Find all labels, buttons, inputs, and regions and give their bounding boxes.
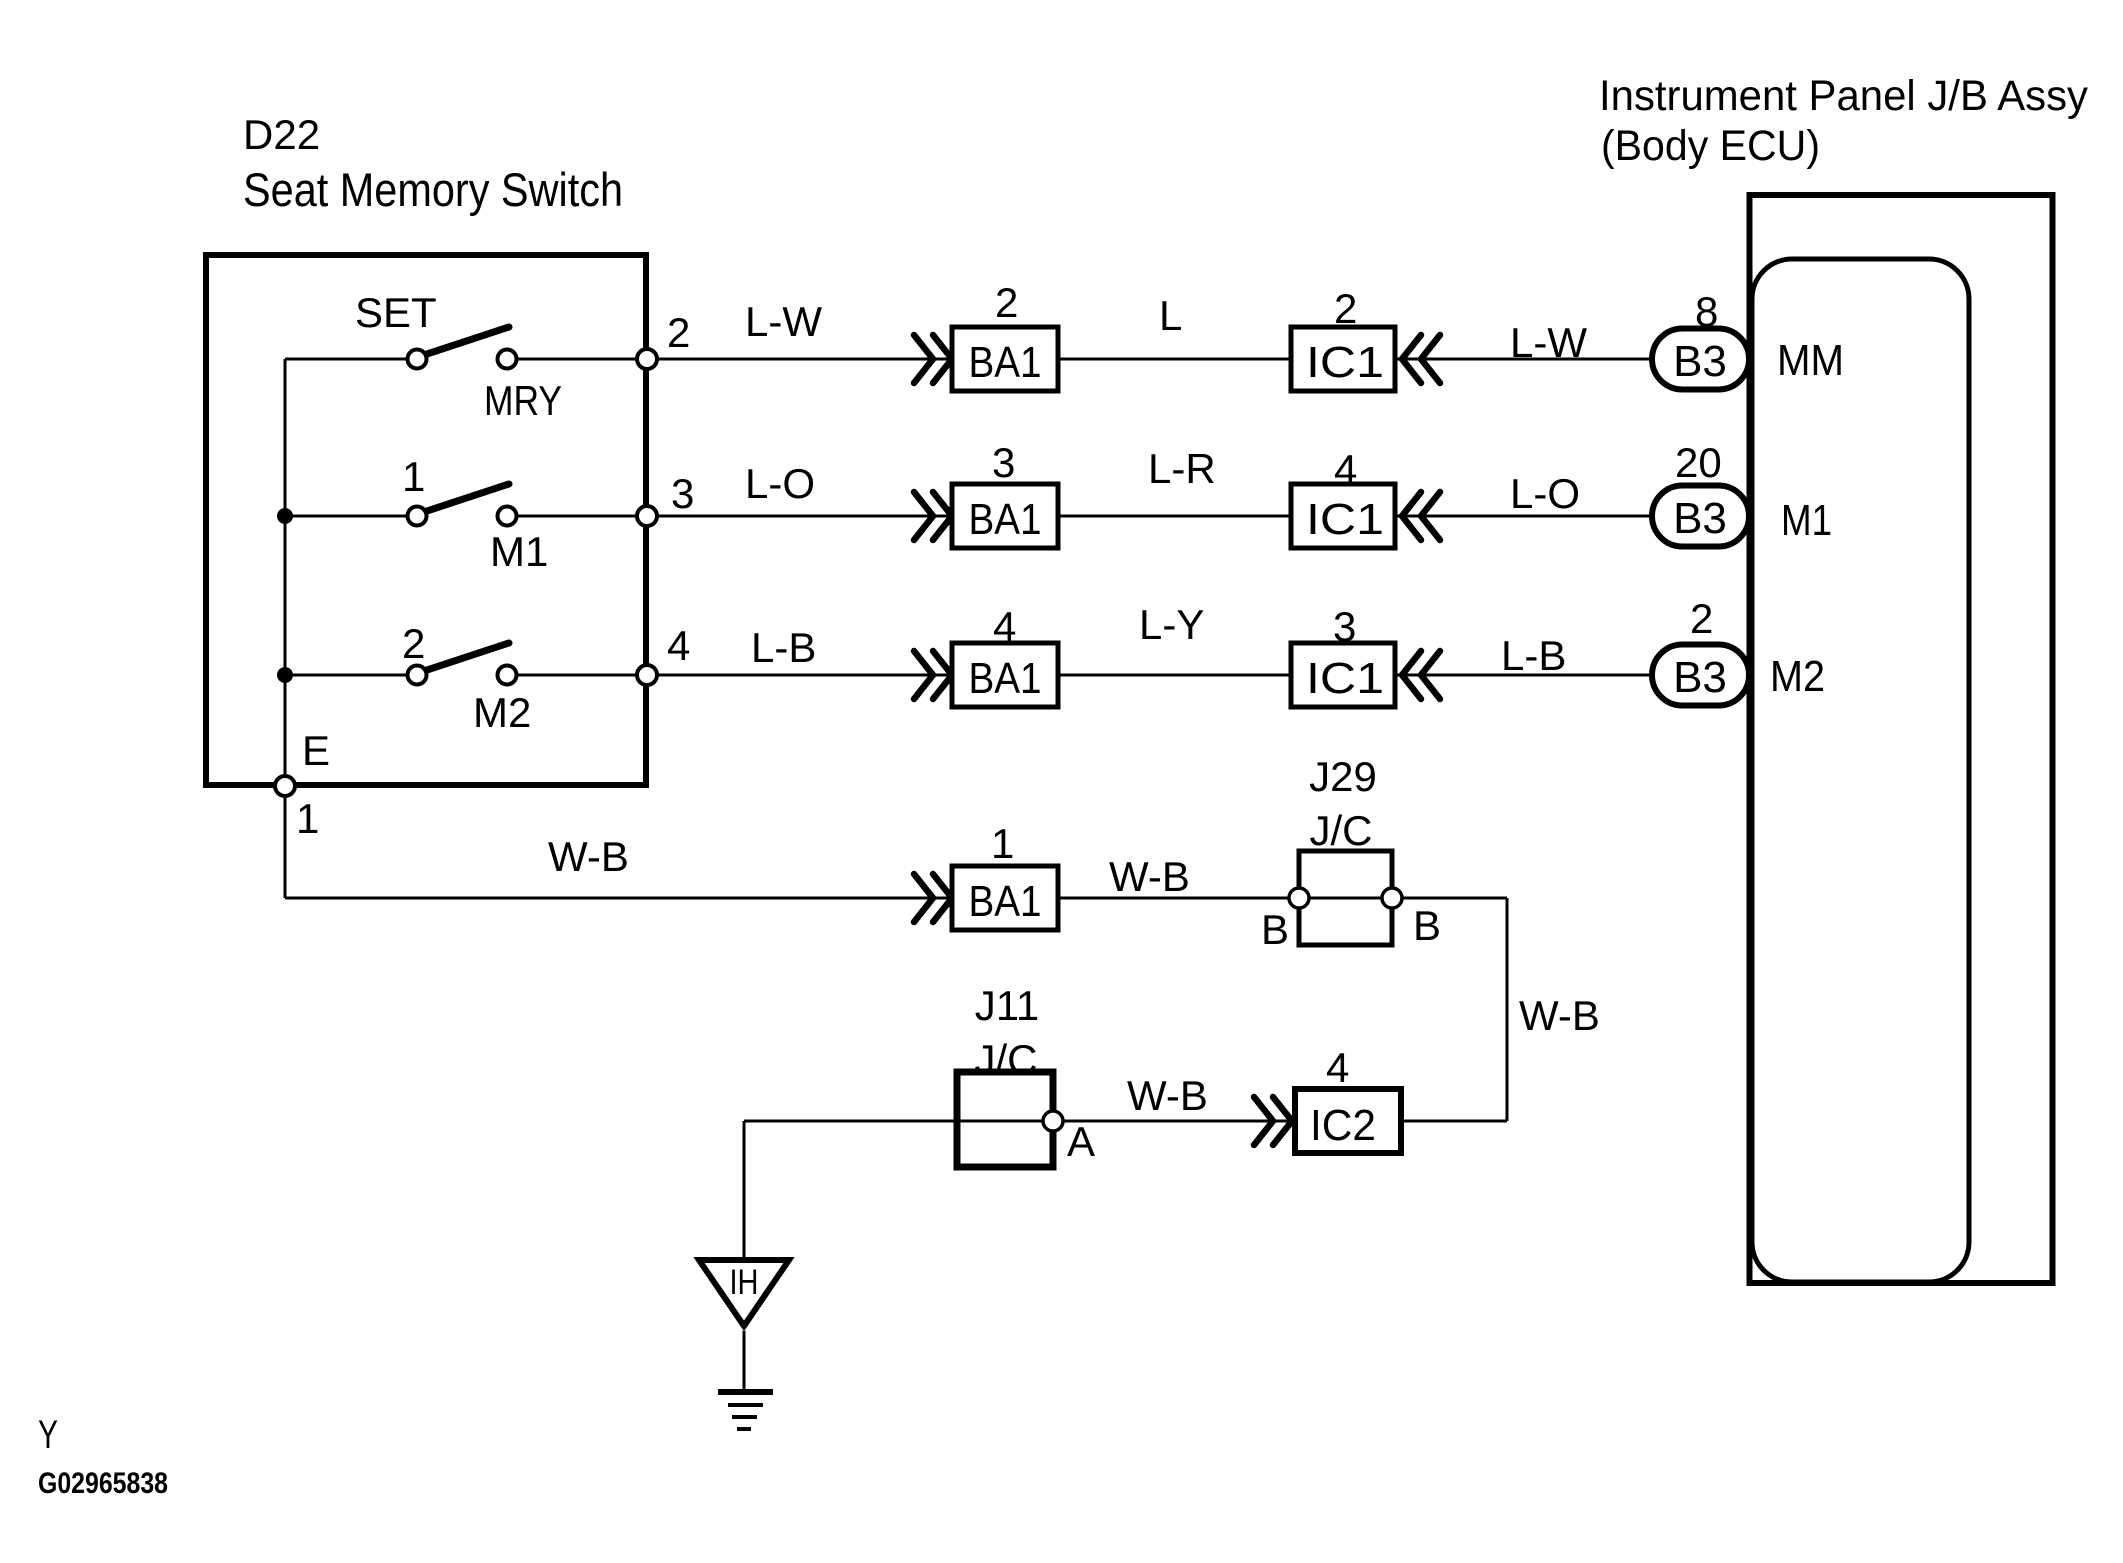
svg-text:M2: M2 <box>1770 652 1825 701</box>
svg-text:1: 1 <box>991 820 1014 867</box>
svg-text:4: 4 <box>1326 1044 1349 1091</box>
svg-text:L-Y: L-Y <box>1139 601 1204 648</box>
svg-text:IC1: IC1 <box>1306 495 1384 544</box>
svg-text:MM: MM <box>1777 336 1844 385</box>
svg-text:4: 4 <box>993 603 1016 650</box>
svg-text:2: 2 <box>667 309 690 356</box>
svg-text:W-B: W-B <box>1127 1072 1208 1119</box>
svg-text:Y: Y <box>38 1413 58 1457</box>
svg-text:IC1: IC1 <box>1306 654 1384 703</box>
svg-text:20: 20 <box>1675 439 1722 486</box>
svg-text:MRY: MRY <box>484 377 562 424</box>
svg-text:1: 1 <box>402 453 425 500</box>
svg-text:2: 2 <box>1334 285 1357 332</box>
svg-text:L-W: L-W <box>1510 319 1587 366</box>
svg-text:B: B <box>1261 906 1289 953</box>
svg-text:M1: M1 <box>1781 496 1832 545</box>
svg-text:1: 1 <box>296 795 319 842</box>
svg-text:IC1: IC1 <box>1306 338 1384 387</box>
svg-text:L: L <box>1159 292 1182 339</box>
svg-text:L-W: L-W <box>745 298 822 345</box>
svg-text:M2: M2 <box>473 689 531 736</box>
svg-text:D22: D22 <box>243 111 320 158</box>
svg-text:Instrument Panel J/B Assy: Instrument Panel J/B Assy <box>1599 72 2088 120</box>
svg-text:B3: B3 <box>1673 337 1727 386</box>
svg-text:J/C: J/C <box>1310 807 1373 854</box>
svg-text:J/C: J/C <box>975 1036 1038 1083</box>
svg-text:L-B: L-B <box>1501 632 1566 679</box>
svg-text:BA1: BA1 <box>969 338 1042 387</box>
svg-text:2: 2 <box>995 279 1018 326</box>
svg-text:B3: B3 <box>1673 653 1727 702</box>
svg-text:M1: M1 <box>490 528 548 575</box>
svg-text:2: 2 <box>1690 595 1713 642</box>
svg-text:J29: J29 <box>1309 753 1377 800</box>
svg-text:2: 2 <box>402 620 425 667</box>
svg-text:J11: J11 <box>975 982 1040 1029</box>
svg-text:W-B: W-B <box>1519 992 1600 1039</box>
svg-text:3: 3 <box>992 439 1015 486</box>
svg-text:L-O: L-O <box>1510 470 1580 517</box>
svg-text:W-B: W-B <box>1109 853 1190 900</box>
svg-text:BA1: BA1 <box>969 654 1042 703</box>
svg-text:3: 3 <box>1333 603 1356 650</box>
svg-text:E: E <box>302 727 330 774</box>
svg-text:B: B <box>1413 902 1441 949</box>
svg-text:L-O: L-O <box>745 460 815 507</box>
svg-text:4: 4 <box>667 622 690 669</box>
svg-text:L-R: L-R <box>1148 445 1216 492</box>
svg-text:IC2: IC2 <box>1310 1101 1376 1150</box>
svg-text:B3: B3 <box>1673 494 1727 543</box>
svg-text:BA1: BA1 <box>969 495 1042 544</box>
svg-text:8: 8 <box>1695 288 1718 335</box>
svg-text:4: 4 <box>1334 446 1357 493</box>
svg-text:A: A <box>1067 1118 1095 1165</box>
svg-text:IH: IH <box>730 1263 759 1302</box>
svg-text:SET: SET <box>355 289 437 336</box>
svg-text:G02965838: G02965838 <box>38 1467 168 1500</box>
svg-text:L-B: L-B <box>751 624 816 671</box>
svg-text:W-B: W-B <box>548 833 629 880</box>
svg-text:3: 3 <box>671 470 694 517</box>
svg-text:BA1: BA1 <box>969 877 1042 926</box>
svg-text:Seat Memory Switch: Seat Memory Switch <box>243 163 623 216</box>
svg-text:(Body ECU): (Body ECU) <box>1601 122 1820 170</box>
